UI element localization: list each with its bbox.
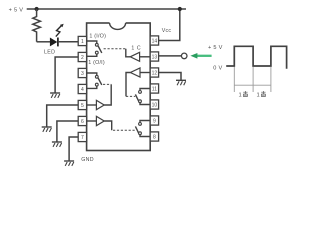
wire pin7 to ground: [69, 137, 78, 161]
wire buffer6 control to SW3: [104, 121, 112, 130]
wire inverter1 to pin13: [140, 56, 151, 58]
wire SW2 control dashed: [103, 83, 111, 85]
pin 11: [150, 84, 158, 93]
svg-text:1 (O/I): 1 (O/I): [88, 60, 105, 66]
wire SW3 control dashed: [113, 129, 136, 131]
node input terminal circle: [181, 53, 187, 59]
svg-text:1: 1: [257, 93, 260, 99]
wire pin12 to ground: [159, 73, 181, 81]
label 1sec left: [239, 91, 248, 99]
wire SW2 control from buffer5: [104, 84, 111, 105]
LED D1: [50, 24, 64, 47]
svg-text:11: 11: [152, 87, 157, 93]
wire SW1 control dashed: [104, 48, 126, 50]
pin 3: [78, 68, 86, 77]
wire inverter2 to SW4 control: [126, 73, 130, 97]
wire pin5 to buffer5: [87, 104, 97, 106]
wire LED to pin1: [58, 41, 78, 43]
wire pin6 to buffer6: [87, 120, 97, 122]
wire pin2 to ground: [55, 57, 78, 93]
pin 4: [78, 84, 86, 93]
svg-text:1 (I/O): 1 (I/O): [89, 34, 106, 40]
svg-text:+ 5 V: + 5 V: [208, 45, 223, 51]
svg-text:+ 5 V: + 5 V: [9, 7, 24, 13]
pin 13: [150, 52, 158, 61]
svg-text:6: 6: [81, 119, 84, 125]
ground G5: [42, 127, 52, 132]
switch SW2 pins3-4: [87, 73, 102, 88]
inverter U1E (pin12 control): [130, 68, 140, 77]
svg-text:0 V: 0 V: [213, 66, 222, 72]
node junction dot left: [35, 7, 39, 11]
wire control corner to inverter1: [126, 49, 130, 57]
svg-text:12: 12: [152, 71, 158, 77]
svg-text:5: 5: [81, 103, 84, 109]
wire pin5 to ground: [47, 105, 78, 127]
wire +5V top rail: [27, 8, 186, 10]
svg-text:10: 10: [152, 103, 158, 109]
svg-text:1 C: 1 C: [131, 45, 141, 51]
switch SW4 pins11-10: [135, 89, 150, 105]
wire resistor to LED: [37, 41, 50, 43]
svg-text:7: 7: [81, 135, 84, 141]
ground G2: [50, 93, 60, 98]
buffer U1D (pin6 control): [96, 116, 104, 125]
pin 10: [150, 100, 158, 109]
inverter U1C (pin13 control): [130, 52, 139, 61]
svg-text:14: 14: [152, 39, 158, 45]
IC U1 body: [87, 23, 151, 151]
pin 14: [150, 36, 158, 45]
svg-text:9: 9: [153, 119, 156, 125]
wire pin14 to rail: [159, 9, 180, 41]
waveform square wave: [226, 46, 286, 69]
resistor R1: [33, 9, 41, 42]
IC U1 notch: [110, 22, 126, 30]
pin 5: [78, 100, 86, 109]
pin 9: [150, 116, 158, 125]
svg-text:4: 4: [81, 87, 84, 93]
ground G6: [52, 142, 62, 147]
buffer U1B (pin5 control): [96, 100, 104, 109]
svg-text:GND: GND: [81, 157, 94, 163]
dimension tick lines: [234, 67, 271, 92]
pin 8: [150, 132, 158, 141]
svg-text:1: 1: [239, 93, 242, 99]
svg-text:13: 13: [152, 55, 158, 61]
ground G12: [176, 80, 186, 85]
pin 6: [78, 116, 86, 125]
svg-text:2: 2: [81, 55, 84, 61]
wire pin6 to ground: [57, 121, 78, 142]
wire inverter2 to pin12: [140, 72, 150, 74]
svg-text:Vcc: Vcc: [162, 28, 172, 34]
svg-text:LED: LED: [44, 50, 55, 56]
switch SW3 pins9-8: [135, 121, 150, 137]
wire SW4 control dashed: [126, 95, 135, 97]
svg-text:3: 3: [81, 71, 84, 77]
node junction dot right: [178, 7, 182, 11]
switch SW1 pins1-2: [87, 41, 102, 56]
svg-text:1: 1: [81, 39, 84, 45]
pin 1: [78, 36, 86, 45]
green input arrow: [190, 53, 211, 59]
pin 2: [78, 52, 86, 61]
wire pin13 to terminal: [159, 55, 182, 57]
pin 7: [78, 132, 86, 141]
ground G7: [64, 161, 74, 166]
label 1sec right: [257, 91, 266, 99]
pin 12: [150, 68, 158, 77]
svg-text:8: 8: [153, 135, 156, 141]
